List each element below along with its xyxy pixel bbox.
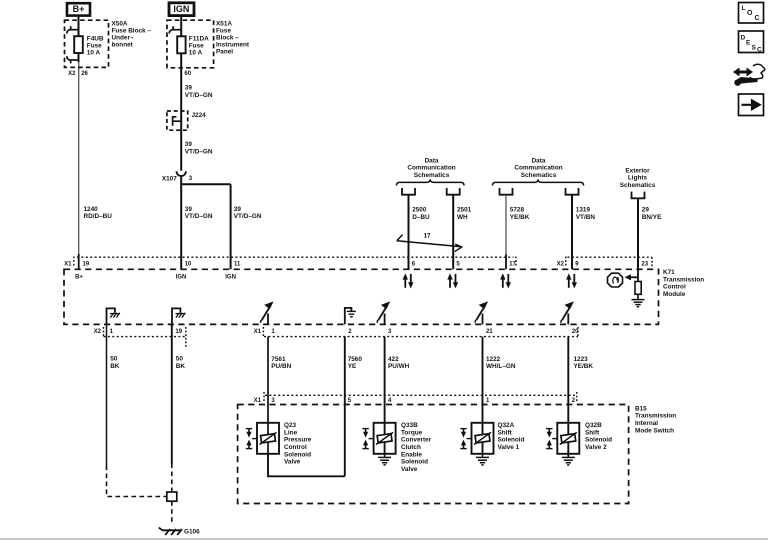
svg-text:Torque: Torque (401, 429, 423, 436)
label 39 VT/D-GN (right branch) (234, 206, 262, 220)
label Q23 Line Pressure Control Solenoid Valve (284, 422, 312, 466)
label 2501 WH (457, 207, 472, 221)
off-page symbol circuit 2500 (402, 188, 415, 195)
solenoid Q32B (557, 423, 579, 454)
connector X2 dotted line (top) (568, 256, 653, 258)
svg-text:19: 19 (175, 329, 182, 335)
connector X107 (177, 171, 186, 176)
svg-text:PU/WH: PU/WH (388, 363, 410, 370)
svg-text:Q32B: Q32B (585, 422, 602, 429)
valve arrows Q23 (246, 429, 257, 449)
J224 terminal symbol (173, 116, 182, 126)
label K71 Transmission Control Module (663, 269, 704, 298)
fuse F11DA (177, 36, 185, 53)
svg-text:Pressure: Pressure (284, 437, 312, 444)
ground at X1 pin 2 (internal) (345, 308, 352, 325)
wire 50 BK (pin 1) (106, 324, 108, 465)
svg-text:YE/BK: YE/BK (574, 363, 594, 370)
ground G106 (159, 528, 182, 535)
ground below Q33B (378, 454, 391, 465)
wire 7560 YE (344, 337, 346, 477)
wire 29 BN/YE (637, 198, 639, 269)
svg-text:Valve: Valve (401, 466, 418, 473)
wire splice to G106 (171, 501, 173, 524)
wire 50 BK (pin 19) (171, 324, 173, 463)
serial data arrows pin 17 (500, 273, 511, 288)
svg-text:Instrument: Instrument (216, 42, 250, 49)
wire 50 BK dashed to splice (107, 466, 168, 497)
wire resistor to ground (637, 294, 639, 299)
terminal hook top (X50A) (67, 26, 80, 33)
svg-text:RD/D–BU: RD/D–BU (84, 213, 113, 220)
B+ terminal box (67, 3, 90, 15)
svg-text:X1: X1 (64, 261, 72, 267)
svg-text:IGN: IGN (225, 274, 236, 280)
svg-text:39: 39 (185, 206, 193, 213)
svg-text:17: 17 (509, 261, 516, 267)
svg-text:Schematics: Schematics (620, 182, 656, 189)
svg-text:Q33B: Q33B (401, 422, 418, 429)
svg-text:X50A: X50A (112, 20, 128, 27)
svg-text:VT/D–GN: VT/D–GN (234, 213, 262, 220)
svg-text:Q23: Q23 (284, 422, 297, 429)
svg-text:1222: 1222 (486, 356, 501, 363)
IGN terminal box (169, 3, 194, 16)
svg-text:Schematics: Schematics (521, 172, 557, 179)
svg-text:IGN: IGN (173, 4, 189, 14)
svg-text:BK: BK (110, 363, 120, 370)
wire branch horizontal (180, 183, 230, 185)
svg-text:17: 17 (423, 233, 431, 240)
svg-text:Fuse: Fuse (87, 43, 102, 50)
label 2500 D-BU (412, 207, 430, 221)
svg-text:C: C (757, 47, 762, 54)
icon LOC button (739, 3, 764, 24)
driver symbol at X1 pin 21 (internal) (475, 301, 488, 324)
svg-text:Block –: Block – (216, 35, 239, 42)
svg-text:10 A: 10 A (189, 50, 203, 57)
svg-text:bonnet: bonnet (112, 42, 134, 49)
svg-text:B+: B+ (73, 4, 85, 14)
svg-text:1240: 1240 (84, 206, 99, 213)
fuse block X51A dashed box (167, 20, 214, 68)
splice node (167, 492, 177, 501)
svg-text:50: 50 (176, 356, 184, 363)
label 50 BK (right) (176, 356, 186, 370)
splice J224 dashed box (167, 111, 188, 130)
label Exterior Lights Schematics (620, 167, 656, 189)
label 39 VT/D-GN (left branch) (185, 206, 213, 220)
icon DESC button (739, 31, 764, 53)
svg-text:VT/D–GN: VT/D–GN (185, 213, 213, 220)
connector X1 dotted line (module bottom) (264, 336, 578, 338)
svg-text:B15: B15 (635, 405, 647, 412)
valve arrows Q32B (546, 429, 557, 449)
svg-text:VT/BN: VT/BN (576, 214, 596, 221)
svg-text:X51A: X51A (216, 20, 232, 27)
ground below Q32A (476, 454, 489, 465)
wire 2501 WH (452, 195, 454, 270)
svg-text:Data: Data (532, 157, 546, 164)
connector X1 dotted line (B15 top) (265, 394, 577, 396)
off-page symbol circuit 29 (632, 192, 645, 199)
svg-text:7560: 7560 (348, 356, 363, 363)
icon tools (wrench with arrows) (733, 64, 765, 85)
svg-text:X1: X1 (254, 398, 262, 404)
serial data arrows pin 6 (403, 273, 414, 288)
label Data Communication Schematics (group 2) (514, 157, 562, 179)
svg-text:5728: 5728 (510, 207, 525, 214)
svg-text:Solenoid: Solenoid (401, 459, 428, 466)
svg-text:19: 19 (83, 261, 90, 267)
label 1240 RD/D-BU (84, 206, 113, 220)
svg-text:VT/D–GN: VT/D–GN (185, 92, 213, 99)
svg-text:39: 39 (185, 85, 193, 92)
svg-text:1223: 1223 (574, 356, 589, 363)
svg-text:Line: Line (284, 429, 298, 436)
svg-text:Fuse: Fuse (216, 27, 231, 34)
svg-text:L: L (742, 5, 746, 12)
chassis ref at X2 pin 1 (internal) (107, 308, 115, 324)
svg-text:X2: X2 (557, 261, 565, 267)
svg-text:Internal: Internal (635, 420, 658, 427)
svg-text:BN/YE: BN/YE (642, 214, 662, 221)
svg-text:X1: X1 (254, 329, 262, 335)
svg-text:F4UB: F4UB (87, 36, 104, 43)
label 1319 VT/BN (576, 207, 596, 221)
wire 422 PU/WH (384, 337, 386, 455)
svg-text:Communication: Communication (407, 165, 455, 172)
label F11DA Fuse 10 A (189, 36, 209, 57)
svg-text:2500: 2500 (412, 207, 427, 214)
X1 dotted end ticks (top) (73, 257, 75, 267)
svg-text:2501: 2501 (457, 207, 472, 214)
svg-text:Mode Switch: Mode Switch (635, 427, 674, 434)
svg-text:39: 39 (234, 206, 242, 213)
svg-text:Under–: Under– (112, 35, 134, 42)
lamp driver symbol at pin 23 (608, 273, 623, 287)
svg-text:Shift: Shift (498, 429, 513, 436)
icon arrow button (739, 94, 764, 116)
svg-text:E: E (746, 40, 751, 47)
svg-text:Clutch: Clutch (401, 444, 421, 451)
svg-text:Valve 2: Valve 2 (585, 444, 607, 451)
pin stub 19 (78, 254, 80, 269)
label F4UB Fuse 10 A (87, 36, 104, 57)
svg-text:Exterior: Exterior (625, 167, 650, 174)
terminal hook bottom (X50A) (67, 56, 80, 63)
label 39 VT/D-GN (mid) (185, 141, 213, 155)
svg-text:21: 21 (486, 329, 493, 335)
svg-text:C: C (755, 15, 760, 22)
svg-text:60: 60 (184, 71, 191, 77)
svg-text:J224: J224 (192, 112, 207, 119)
svg-text:422: 422 (388, 356, 399, 363)
page footer rule (0, 538, 768, 540)
svg-text:50: 50 (110, 356, 118, 363)
svg-text:D: D (741, 35, 746, 42)
brace group 2 (493, 179, 584, 185)
svg-text:1319: 1319 (576, 207, 591, 214)
solenoid Q33B (374, 423, 396, 454)
wire 5728 YE/BK (505, 195, 507, 255)
svg-text:G106: G106 (184, 529, 200, 536)
svg-text:YE: YE (348, 363, 357, 370)
svg-text:X107: X107 (162, 175, 177, 182)
svg-text:Lights: Lights (628, 175, 648, 182)
solenoid Q23 (257, 423, 279, 454)
wire below X107 with branch (180, 176, 182, 269)
svg-text:Fuse Block –: Fuse Block – (112, 27, 152, 34)
label X51A Fuse Block Instrument Panel (216, 20, 250, 55)
svg-text:10: 10 (185, 261, 192, 267)
switch box B15 dashed outline (238, 405, 629, 504)
arrow to lamp driver (630, 276, 639, 278)
driver symbol at X1 pin 20 (internal) (561, 301, 574, 324)
label Q33B Torque Converter Clutch Enable Solenoid Valve (401, 422, 432, 473)
svg-text:K71: K71 (663, 269, 675, 276)
svg-text:23: 23 (641, 261, 648, 267)
svg-text:39: 39 (185, 141, 193, 148)
svg-text:Module: Module (663, 291, 686, 298)
svg-text:D–BU: D–BU (412, 214, 430, 221)
label Q32B Shift Solenoid Valve 2 (585, 422, 612, 451)
label 5728 YE/BK (510, 207, 530, 221)
wire 1223 YE/BK (567, 337, 569, 456)
label 29 BN/YE (642, 207, 662, 221)
svg-text:WH: WH (457, 214, 468, 221)
svg-text:Communication: Communication (514, 165, 562, 172)
svg-text:Control: Control (663, 284, 686, 291)
svg-text:Transmission: Transmission (635, 413, 676, 420)
fuse F4UB (74, 36, 83, 53)
svg-text:X2: X2 (68, 71, 76, 77)
svg-text:Shift: Shift (585, 429, 600, 436)
svg-text:Valve: Valve (284, 459, 301, 466)
svg-text:B+: B+ (75, 274, 83, 280)
brace group 1 (397, 179, 465, 185)
svg-text:Solenoid: Solenoid (585, 437, 612, 444)
twisted pair symbol with label 17 (397, 235, 462, 252)
valve arrows Q33B (362, 429, 373, 449)
serial data arrows pin 5 (447, 273, 458, 288)
ground below Q32B (562, 454, 575, 465)
resistor internal (635, 282, 641, 295)
svg-text:X2: X2 (94, 329, 102, 335)
off-page symbol circuit 1319 (566, 188, 579, 195)
svg-text:Converter: Converter (401, 437, 432, 444)
wire 1319 VT/BN (571, 195, 573, 270)
solenoid Q32A (472, 423, 494, 454)
svg-text:Fuse: Fuse (189, 43, 204, 50)
off-page symbol circuit 2501 (447, 188, 460, 195)
label Q32A Shift Solenoid Valve 1 (498, 422, 525, 451)
wire branch down to pin 11 (230, 184, 232, 269)
svg-text:10 A: 10 A (87, 50, 101, 57)
terminal hook top (X51A) (169, 26, 182, 33)
chassis ref at X2 pin 19 (internal) (172, 308, 180, 324)
svg-text:20: 20 (572, 329, 579, 335)
svg-text:IGN: IGN (176, 274, 187, 280)
wire 50 BK dashed to splice (right) (171, 464, 173, 493)
svg-text:Data: Data (425, 157, 439, 164)
driver symbol at X1 pin 3 (internal) (377, 301, 390, 324)
label X50A Fuse Block (112, 20, 152, 48)
wire B+ from terminal into fuse block (78, 16, 80, 63)
svg-text:WH/L–GN: WH/L–GN (486, 363, 516, 370)
svg-text:O: O (747, 10, 753, 17)
wire 1240 RD/D-BU down to K71 pin 19 (78, 62, 80, 254)
svg-text:YE/BK: YE/BK (510, 214, 530, 221)
svg-text:Q32A: Q32A (498, 422, 515, 429)
driver symbol at X1 pin 1 (internal) (261, 301, 274, 324)
svg-text:7561: 7561 (271, 356, 286, 363)
fuse block X50A dashed box (65, 20, 109, 67)
svg-text:PU/BN: PU/BN (271, 363, 291, 370)
svg-text:Valve 1: Valve 1 (498, 444, 520, 451)
svg-text:Transmission: Transmission (663, 276, 704, 283)
svg-text:Panel: Panel (216, 49, 233, 56)
svg-text:29: 29 (642, 207, 650, 214)
ground (pin 23 internal) (632, 300, 645, 307)
module K71 dashed outline (64, 269, 659, 324)
wire Q23 return (268, 454, 345, 477)
svg-text:26: 26 (81, 71, 88, 77)
wire 1222 WH/L-GN (482, 337, 484, 455)
valve arrows Q32A (460, 429, 471, 449)
svg-text:VT/D–GN: VT/D–GN (185, 148, 213, 155)
svg-text:Solenoid: Solenoid (284, 451, 311, 458)
wire 2500 D-BU (408, 195, 410, 270)
label B15 Transmission Internal Mode Switch (635, 405, 676, 434)
label 39 VT/D-GN (upper) (185, 85, 213, 99)
wire IGN vertical to X107 (180, 16, 182, 171)
label 50 BK (left) (110, 356, 120, 370)
X2 dotted end ticks (top) (565, 257, 567, 267)
serial data arrows pin 9 (566, 273, 577, 288)
off-page symbol circuit 5728 (500, 188, 513, 195)
svg-text:11: 11 (234, 261, 241, 267)
connector X1 dotted line (top) (77, 256, 514, 258)
svg-text:Schematics: Schematics (414, 172, 450, 179)
label Data Communication Schematics (group 1) (407, 157, 455, 179)
svg-text:Enable: Enable (401, 451, 422, 458)
svg-text:F11DA: F11DA (189, 36, 209, 43)
wire 7561 PU/BN (267, 337, 269, 454)
svg-text:Control: Control (284, 444, 307, 451)
connector X2 dotted line (module bottom) (104, 336, 186, 338)
svg-text:Solenoid: Solenoid (498, 437, 525, 444)
wire pin 23 internal (637, 269, 639, 281)
svg-text:S: S (752, 45, 757, 52)
svg-text:BK: BK (176, 363, 186, 370)
